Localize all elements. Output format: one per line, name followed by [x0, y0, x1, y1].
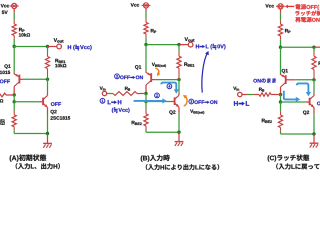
wire node to RBE1 C: [313, 47, 315, 56]
label Vcc C: [265, 4, 274, 7]
node junction RB B: [144, 92, 147, 95]
annotation circled4 B: [167, 84, 172, 89]
transistor Q1 A pnp: [14, 72, 23, 86]
caption A line2: [16, 163, 60, 169]
wire Q2 emitter down A: [47, 107, 49, 133]
transistor Q2 C npn: [305, 96, 314, 108]
node junction RB A: [13, 93, 16, 96]
terminal Vin B: [102, 91, 106, 95]
label Vout A: [54, 38, 64, 42]
wire RBE1 to base node C: [313, 70, 315, 80]
label Q1 B: [135, 65, 141, 69]
resistor RBE2 B: [144, 114, 148, 126]
annotation ON no mama Q1 C: [253, 78, 276, 83]
wire Vin to RB C: [242, 94, 259, 96]
caption C line1: [268, 155, 310, 162]
wire to Vout terminal A: [48, 46, 57, 48]
wire Vcc to RP C: [280, 9, 282, 24]
label 5V A: [2, 11, 8, 14]
power Vcc supply B: [142, 3, 151, 8]
transistor Q1 C pnp: [281, 73, 290, 87]
wire Q1 collector down C: [280, 87, 282, 95]
transistor Q2 B npn: [170, 95, 179, 107]
wire RP to node C: [280, 36, 282, 47]
label RBE2 value clipped A: [0, 122, 5, 125]
node junction left B: [144, 43, 147, 46]
power Vcc supply A: [10, 3, 19, 8]
ground A: [43, 134, 52, 148]
wire RB to rail C: [271, 94, 281, 96]
wire Q1 collector down B: [145, 85, 147, 94]
annotation ON no mama Q2 C clipped: [317, 101, 320, 106]
annotation red arrow C: [285, 5, 294, 9]
resistor RB A clipped: [0, 93, 14, 97]
annotation red text line3 C: [295, 17, 320, 22]
resistor RBE1 B: [177, 56, 181, 68]
wire node to RBE1 B: [178, 45, 180, 57]
label Vin C: [233, 87, 239, 91]
label Vcc A: [1, 4, 10, 7]
label RB C: [259, 88, 264, 92]
annotation thick arrow base current C: [297, 83, 311, 96]
label 2SC1815 A: [50, 116, 70, 119]
resistor RB C: [259, 93, 271, 97]
node junction ground A: [46, 132, 49, 135]
ground C: [310, 134, 319, 148]
caption C line2: [276, 163, 320, 169]
wire horizontal node C: [281, 46, 315, 48]
annotation H to L C: [234, 101, 249, 106]
node junction left C: [279, 46, 282, 49]
wire rail segment B: [145, 94, 147, 102]
wire Q2 collector up A: [47, 79, 49, 95]
node junction base A: [46, 78, 49, 81]
resistor RBE2 C: [278, 115, 282, 128]
wire horizontal node A: [14, 46, 47, 48]
label RBE1 A: [55, 59, 65, 63]
label RBE2 A clipped: [0, 118, 5, 122]
wire Q2 collector up C: [313, 80, 315, 96]
annotation thick arrow base current B: [134, 98, 167, 103]
wire Vin to RB B: [107, 93, 113, 95]
wire rail segment A: [13, 95, 15, 102]
resistor RP A: [12, 24, 16, 36]
node junction Vout B: [177, 43, 180, 46]
wire bottom rail A: [14, 133, 47, 135]
label VBEsat Q1 B: [152, 63, 166, 68]
label Vcc B: [131, 3, 140, 6]
label 2SA1015 A clipped: [0, 71, 10, 74]
label RB value clipped A: [0, 99, 3, 102]
wire horizontal node B: [146, 44, 179, 46]
annotation H approx Vcc A: [68, 45, 92, 51]
resistor RB B: [113, 92, 137, 96]
caption A line1: [10, 154, 47, 161]
wire bottom rail B: [146, 131, 179, 133]
label Q1 A: [4, 64, 10, 68]
label VBEsat Q2 B: [190, 110, 204, 115]
wire Q2 emitter down B: [178, 107, 180, 132]
wire rail segment C: [280, 95, 282, 102]
label RP A: [19, 28, 24, 32]
wire to Q2 base C: [281, 101, 306, 103]
wire base2 to RBE2 C: [280, 102, 282, 115]
wire RP to node B: [145, 34, 147, 45]
label RBE2 B: [132, 121, 142, 125]
annotation orange arrow Q2 B: [183, 95, 187, 106]
resistor RBE1 C: [312, 56, 316, 69]
node junction base2 C: [279, 100, 282, 103]
wire Q1 base to node C: [290, 79, 314, 81]
annotation orange arrow Q1 B: [155, 68, 160, 76]
annotation OFF to ON Q2 B: [189, 99, 217, 104]
node junction ground C: [312, 132, 315, 135]
wire Vcc to RP A: [13, 9, 15, 24]
label RP C: [285, 29, 290, 33]
wire RBE1 to base node A: [47, 69, 49, 80]
label Q2 A: [51, 110, 57, 114]
wire to Vout clipped C: [314, 46, 320, 48]
wire left rail B: [145, 45, 147, 71]
transistor Q1 B pnp: [146, 71, 155, 85]
wire to Q2 base B: [146, 101, 170, 103]
wire base2 to RBE2 B: [145, 102, 147, 114]
node junction ground B: [177, 131, 180, 134]
wire Q2 collector up B: [178, 80, 180, 96]
annotation red text line2 C: [295, 11, 320, 16]
label Q1 C: [282, 69, 288, 73]
annotation circled1 L to H B: [100, 98, 121, 104]
annotation OFF Q2 A: [51, 102, 61, 106]
terminal Vin C: [238, 92, 242, 96]
wire RBE2 to bottom A: [13, 127, 15, 134]
transistor Q2 A npn: [39, 95, 48, 107]
annotation circled2 B: [155, 93, 160, 98]
node junction base B: [177, 78, 180, 81]
node junction Vout A: [46, 45, 49, 48]
wire RBE2 to bottom C: [280, 128, 282, 135]
caption B line1: [141, 155, 170, 162]
node junction base2 B: [144, 100, 147, 103]
annotation thick arrow collector current C: [284, 91, 300, 102]
annotation thick arrow collector B: [161, 83, 179, 94]
label Q2 C: [303, 111, 309, 115]
resistor RP C: [278, 24, 282, 36]
annotation OFF Q1 A: [0, 80, 10, 84]
wire RBE2 to bottom B: [145, 126, 147, 132]
label RBE1 C clipped: [319, 62, 320, 66]
ground B: [175, 132, 184, 146]
wire Vcc to RP B: [145, 8, 147, 22]
wire Q1 base to node B: [155, 79, 179, 81]
wire left rail A: [13, 47, 15, 73]
wire RB to rail B: [137, 93, 146, 95]
annotation H to L B: [196, 44, 226, 50]
wire Q1 base to node A: [24, 78, 48, 80]
label Vin B: [100, 87, 106, 91]
label RP value 10k A: [19, 33, 30, 36]
node junction Vout C: [312, 46, 315, 49]
label Vout B: [185, 37, 195, 41]
wire to Vout terminal B: [179, 44, 188, 46]
node junction left A: [13, 45, 16, 48]
label Q2 B: [169, 110, 175, 114]
caption B line2: [146, 164, 219, 170]
label RBE2 C: [262, 119, 272, 123]
wire left rail C: [280, 47, 282, 73]
wire Q1 collector down A: [13, 86, 15, 95]
wire Q2 emitter down C: [313, 108, 315, 135]
wire RP to node A: [13, 36, 15, 47]
label RP B: [151, 29, 156, 33]
terminal Vout B: [188, 42, 193, 47]
wire base2 to RBE2 A: [13, 102, 15, 115]
node junction base2 A: [13, 100, 16, 103]
resistor RP B: [144, 22, 148, 34]
annotation approx Vcc B: [112, 107, 130, 113]
label RBE1 value A: [55, 64, 66, 67]
node junction base C: [312, 78, 315, 81]
resistor RBE2 A: [12, 115, 16, 127]
annotation red text line1 C: [296, 4, 320, 10]
wire bottom rail C: [281, 133, 315, 135]
label RBE1 B: [184, 62, 194, 66]
power Vcc supply C: [276, 4, 285, 9]
wire RBE1 to base node B: [178, 68, 180, 79]
resistor RBE1 A: [45, 57, 49, 69]
wire to Q2 base A: [14, 101, 39, 103]
node junction RB C: [279, 93, 282, 96]
wire node to RBE1 A: [47, 47, 49, 57]
label RB B: [125, 87, 130, 91]
terminal Vout A: [57, 44, 62, 49]
annotation OFF to ON Q1 B: [115, 74, 143, 79]
annotation curved arrow to Vout B: [202, 51, 209, 93]
